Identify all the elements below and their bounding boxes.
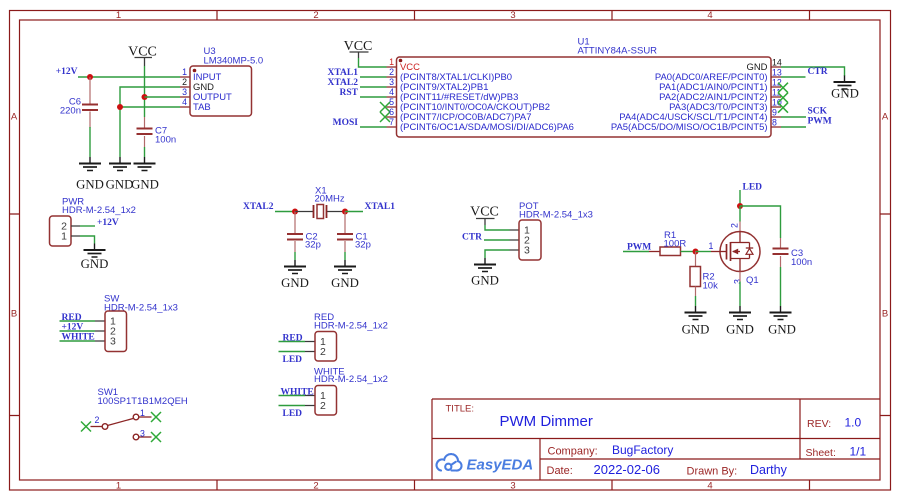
connector RED body: [315, 332, 337, 362]
wire WHITE to conn pin1: [279, 395, 306, 397]
wire +12V to SW pin2: [60, 330, 96, 332]
wire RST: [360, 96, 387, 98]
svg-text:+12V: +12V: [56, 67, 78, 77]
wire XTAL1: [360, 76, 387, 78]
connector PWR body: [50, 216, 72, 246]
capacitor C2: [294, 212, 296, 235]
svg-text:VCC: VCC: [470, 205, 499, 220]
svg-text:1: 1: [140, 408, 145, 418]
capacitor C6: [89, 77, 91, 104]
svg-text:TITLE:: TITLE:: [446, 404, 475, 415]
svg-text:GND: GND: [471, 274, 499, 288]
svg-text:Drawn By:: Drawn By:: [687, 466, 738, 478]
svg-text:B: B: [882, 309, 888, 320]
svg-text:3: 3: [182, 87, 187, 97]
svg-text:RST: RST: [340, 88, 359, 98]
ground (R2): [685, 306, 707, 320]
wire U3 GND pin to ground: [120, 87, 180, 157]
svg-text:5: 5: [389, 97, 394, 107]
svg-text:20MHz: 20MHz: [315, 194, 345, 205]
svg-text:9: 9: [772, 108, 777, 118]
svg-text:3: 3: [389, 77, 394, 87]
svg-text:REV:: REV:: [807, 418, 831, 430]
ground (C3): [770, 306, 792, 320]
svg-text:1: 1: [182, 67, 187, 77]
wire drain node to C3: [740, 206, 781, 238]
frame column ticks bottom: [217, 480, 810, 490]
wire RED to SW pin1: [60, 320, 96, 322]
svg-text:3: 3: [524, 245, 530, 257]
wire SCK pin9: [781, 116, 806, 118]
wire junction to Q1 gate: [696, 251, 712, 253]
svg-text:LM340MP-5.0: LM340MP-5.0: [204, 55, 264, 66]
svg-text:1: 1: [116, 10, 121, 21]
U1 right pin stubs: [771, 67, 781, 127]
svg-text:3: 3: [733, 279, 743, 284]
wire XTAL2 to crystal: [275, 211, 295, 213]
svg-text:2: 2: [730, 223, 740, 228]
svg-text:XTAL1: XTAL1: [365, 202, 396, 212]
ground (POT): [474, 258, 496, 272]
svg-text:1: 1: [389, 57, 394, 67]
svg-text:GND: GND: [81, 257, 109, 271]
wire LED to conn pin2: [279, 405, 306, 407]
no-connect X pin6: [380, 112, 390, 122]
ground (C7): [134, 157, 156, 171]
svg-text:100R: 100R: [664, 238, 687, 249]
svg-text:GND: GND: [831, 87, 859, 101]
U1 left pin stubs: [387, 67, 397, 127]
svg-text:4: 4: [389, 87, 394, 97]
wire MOSI: [360, 126, 387, 128]
wire VCC to U1 pin1: [359, 58, 387, 67]
SW1 pin3 stub: [139, 436, 152, 438]
frame row ticks left: [10, 214, 20, 416]
svg-text:TAB: TAB: [193, 102, 211, 113]
wire PWR pin1 to ground: [80, 236, 95, 244]
svg-text:6: 6: [389, 107, 394, 117]
svg-text:4: 4: [182, 97, 187, 107]
POT connector pin stubs: [510, 230, 520, 250]
svg-text:2: 2: [95, 415, 100, 425]
svg-text:3: 3: [510, 481, 515, 492]
svg-text:Darthy: Darthy: [750, 463, 788, 477]
wire crystal to XTAL1: [345, 211, 363, 213]
svg-text:XTAL2: XTAL2: [243, 202, 274, 212]
wire VCC to POT pin1: [485, 225, 510, 230]
svg-text:2: 2: [320, 346, 326, 358]
microcontroller U1 body: [397, 57, 772, 137]
capacitor C3: [780, 238, 782, 249]
svg-text:2: 2: [313, 481, 318, 492]
node junction TAB/GND: [117, 104, 123, 110]
wire PWM pin8: [781, 126, 806, 128]
svg-text:2: 2: [320, 400, 326, 412]
wire POT pin3 to ground: [485, 250, 510, 258]
svg-text:LED: LED: [283, 409, 303, 419]
connector WHITE body: [315, 386, 337, 416]
svg-text:32p: 32p: [355, 240, 371, 251]
RED connector pin stubs: [305, 342, 315, 352]
svg-text:ATTINY84A-SSUR: ATTINY84A-SSUR: [578, 46, 658, 57]
svg-text:GND: GND: [76, 178, 104, 192]
svg-text:GND: GND: [106, 178, 134, 192]
svg-text:PWM: PWM: [808, 117, 832, 127]
regulator U3 pins: [180, 77, 190, 107]
svg-text:11: 11: [772, 88, 781, 98]
title block lines: [432, 399, 880, 480]
svg-text:HDR-M-2.54_1x3: HDR-M-2.54_1x3: [519, 209, 593, 220]
svg-text:100SP1T1B1M2QEH: 100SP1T1B1M2QEH: [98, 396, 188, 407]
node junction R1/R2/gate: [693, 249, 699, 255]
svg-text:LED: LED: [743, 183, 763, 193]
no-connect X pin5: [380, 102, 390, 112]
no-connect X SW1 pin3: [151, 432, 161, 442]
svg-text:2: 2: [182, 77, 187, 87]
svg-text:MOSI: MOSI: [333, 118, 359, 128]
svg-text:CTR: CTR: [808, 67, 828, 77]
svg-text:XTAL1: XTAL1: [328, 68, 359, 78]
resistor R2: [695, 252, 697, 267]
resistor R1: [649, 251, 660, 253]
wire +12V to U3 pin1: [78, 76, 180, 78]
node junction VCC/OUTPUT: [142, 94, 148, 100]
connector POT body: [519, 220, 541, 260]
wire LED to conn pin2: [279, 351, 306, 353]
svg-text:BugFactory: BugFactory: [612, 443, 673, 457]
svg-text:LED: LED: [283, 355, 303, 365]
svg-text:HDR-M-2.54_1x2: HDR-M-2.54_1x2: [314, 320, 388, 331]
svg-text:Q1: Q1: [746, 275, 759, 286]
wire CTR pin13: [781, 76, 806, 78]
wire Q1 source to ground: [739, 272, 741, 282]
svg-text:Date:: Date:: [547, 465, 573, 477]
svg-text:1: 1: [709, 241, 714, 251]
ground (C2): [284, 260, 306, 274]
svg-text:4: 4: [707, 10, 712, 21]
svg-text:B: B: [11, 309, 17, 320]
svg-text:GND: GND: [131, 178, 159, 192]
svg-text:1/1: 1/1: [850, 445, 867, 459]
svg-text:HDR-M-2.54_1x2: HDR-M-2.54_1x2: [314, 374, 388, 385]
ground (PWR): [84, 244, 106, 258]
SW1 throw circle pin1: [133, 414, 139, 420]
SW1 lever: [108, 419, 134, 426]
svg-text:2: 2: [389, 67, 394, 77]
wire U3 OUTPUT: [145, 96, 181, 98]
frame column ticks top: [217, 11, 810, 21]
svg-text:+12V: +12V: [97, 218, 119, 228]
svg-text:4: 4: [707, 481, 712, 492]
wire U3 TAB to GND net: [120, 106, 180, 108]
svg-text:1.0: 1.0: [845, 416, 862, 430]
svg-text:3: 3: [110, 336, 116, 348]
no-connect X pin11: [778, 93, 788, 103]
wire PWM to R1: [623, 251, 649, 253]
svg-text:A: A: [882, 112, 889, 123]
wire LED down to drain node: [739, 190, 741, 206]
SW1 pin2 stub: [91, 426, 103, 428]
EasyEDA logo cloud: [437, 454, 462, 471]
connector SW body: [105, 311, 127, 352]
svg-text:220n: 220n: [60, 106, 81, 117]
svg-text:HDR-M-2.54_1x2: HDR-M-2.54_1x2: [62, 205, 136, 216]
svg-text:XTAL2: XTAL2: [328, 78, 359, 88]
crystal X1: [295, 211, 345, 213]
svg-text:GND: GND: [281, 276, 309, 290]
svg-text:100n: 100n: [155, 135, 176, 146]
capacitor C1: [344, 212, 346, 235]
wire PWR pin2 +12V: [80, 225, 95, 227]
wire drain node down to Q1: [739, 206, 741, 222]
svg-text:7: 7: [389, 117, 394, 127]
PWR connector pin stubs: [71, 226, 80, 236]
svg-text:GND: GND: [331, 276, 359, 290]
ground (U1): [834, 76, 856, 90]
SW1 pin1 stub: [139, 416, 152, 418]
capacitor C7: [144, 117, 146, 129]
ground (U3 GND): [109, 157, 131, 171]
SW connector pin stubs: [95, 321, 105, 341]
svg-text:3: 3: [140, 429, 145, 439]
node junction C2/crystal: [292, 209, 298, 215]
node junction C6/+12V: [87, 74, 93, 80]
svg-text:SCK: SCK: [808, 107, 828, 117]
WHITE connector pin stubs: [305, 396, 315, 406]
svg-text:(PCINT6/OC1A/SDA/MOSI/DI/ADC6): (PCINT6/OC1A/SDA/MOSI/DI/ADC6)PA6: [400, 122, 574, 133]
svg-text:GND: GND: [768, 323, 796, 337]
frame row ticks right: [880, 214, 891, 416]
wire U1 GND pin14: [781, 67, 845, 76]
no-connect X pin12: [778, 83, 788, 93]
svg-text:3: 3: [510, 10, 515, 21]
svg-text:1: 1: [61, 231, 67, 243]
svg-text:32p: 32p: [305, 240, 321, 251]
svg-text:1: 1: [116, 481, 121, 492]
svg-text:EasyEDA: EasyEDA: [467, 457, 534, 474]
no-connect X SW1 pin2: [81, 422, 91, 432]
no-connect X pin10: [778, 103, 788, 113]
svg-text:13: 13: [772, 68, 782, 78]
wire XTAL2: [360, 86, 387, 88]
transistor Q1: [739, 222, 741, 232]
svg-text:2: 2: [313, 10, 318, 21]
wire RED to conn pin1: [279, 341, 306, 343]
ground (Q1): [729, 306, 751, 320]
svg-text:Sheet:: Sheet:: [806, 447, 836, 459]
svg-text:2022-02-06: 2022-02-06: [594, 462, 661, 477]
svg-text:A: A: [11, 112, 18, 123]
node junction drain/C3: [737, 203, 743, 209]
ground (C6): [79, 157, 101, 171]
svg-text:8: 8: [772, 118, 777, 128]
op-amp U3 body: [190, 66, 252, 116]
wire WHITE to SW pin3: [60, 340, 96, 342]
node junction C1/crystal: [342, 209, 348, 215]
svg-text:PA5(ADC5/DO/MISO/OC1B/PCINT5): PA5(ADC5/DO/MISO/OC1B/PCINT5): [611, 122, 768, 133]
svg-text:10k: 10k: [703, 281, 719, 292]
svg-text:100n: 100n: [791, 257, 812, 268]
wire CTR to POT pin2: [484, 239, 510, 241]
wire VCC down to OUTPUT and C7: [144, 66, 146, 117]
svg-text:PWM Dimmer: PWM Dimmer: [500, 413, 593, 430]
SW1 throw circle pin3: [133, 434, 139, 440]
wire C6 to GND: [89, 127, 91, 157]
ground (C1): [334, 260, 356, 274]
no-connect X SW1 pin1: [151, 412, 161, 422]
svg-text:GND: GND: [726, 323, 754, 337]
svg-text:Company:: Company:: [548, 446, 598, 458]
svg-text:14: 14: [772, 58, 782, 68]
SW1 pole circle pin2: [102, 424, 108, 430]
svg-text:CTR: CTR: [462, 233, 482, 243]
svg-text:GND: GND: [682, 323, 710, 337]
